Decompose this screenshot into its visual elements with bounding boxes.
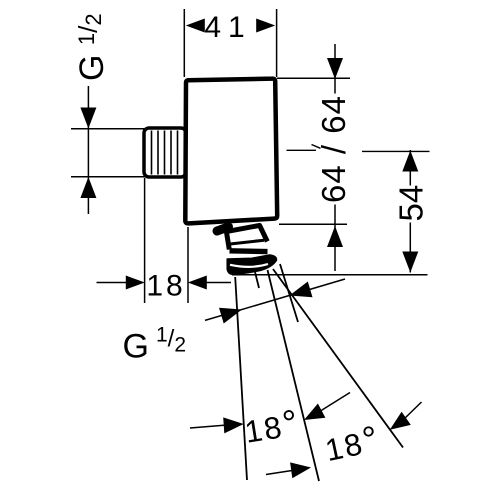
- arrow 64/64 bottom: [327, 226, 343, 247]
- arrow 41 right: [256, 19, 275, 33]
- angle arrow A tail: [190, 425, 227, 428]
- arrow 64/64 top: [327, 58, 343, 79]
- dimension line 64/64 upper segment: [334, 44, 336, 94]
- threaded inlet pipe: [144, 128, 186, 177]
- dimension line G1/2 vertical: [87, 86, 89, 214]
- extension line 41 right: [276, 9, 278, 77]
- label 18 deg first: [242, 402, 303, 451]
- arrow 41 left: [186, 19, 205, 33]
- nozzle collar band: [230, 248, 268, 254]
- escutcheon body plate: [185, 79, 277, 224]
- angle arrow B: [304, 404, 325, 421]
- spray line 3 outer: [273, 269, 403, 448]
- extension line body bottom right: [279, 223, 347, 225]
- label 18 deg second: [321, 417, 384, 469]
- extension tick G1/2 bottom: [71, 176, 145, 178]
- label G 1/2 rotated top left: [73, 13, 111, 81]
- extension line 41 left: [183, 9, 185, 77]
- dimension tail 18 right: [207, 282, 232, 284]
- arrow G1/2 up: [80, 177, 96, 198]
- arrow 54 up: [402, 151, 418, 172]
- spray line 1 vertical: [235, 277, 247, 480]
- dimension line 54 lower segment: [409, 223, 411, 273]
- extension line outlet bottom: [232, 274, 428, 276]
- leader arrow at spray edge: [290, 282, 313, 298]
- spray edge line short: [280, 264, 298, 322]
- svg-text:18: 18: [146, 270, 185, 303]
- centerline jog: [312, 145, 321, 149]
- extension line 18 right: [187, 227, 189, 303]
- centerline dash 2: [362, 150, 430, 152]
- svg-text:41: 41: [204, 11, 251, 44]
- spray line 2 middle: [268, 270, 320, 481]
- nozzle outlet ring: [227, 255, 276, 274]
- extension line body top right: [277, 77, 350, 79]
- angle arrow C: [290, 462, 311, 478]
- outlet nozzle tab: [217, 227, 229, 231]
- angle arrow D: [390, 412, 411, 430]
- leader arrow at spray line 1: [219, 308, 242, 324]
- arrow 18 left: [126, 276, 145, 290]
- arrow 54 down: [402, 252, 418, 273]
- svg-text:64 / 64: 64 / 64: [315, 95, 352, 203]
- extension tick G1/2 top: [71, 128, 145, 130]
- outlet nozzle neck: [226, 225, 267, 249]
- nozzle ring white stripe: [230, 264, 268, 267]
- dimension tail 18 left: [97, 282, 129, 284]
- centerline dash 1: [287, 149, 317, 151]
- arrow 18 right: [188, 276, 207, 290]
- angle arrow C tail: [266, 471, 292, 475]
- svg-text:54: 54: [393, 185, 430, 222]
- dimension line 64/64 lower segment: [334, 205, 336, 272]
- dimension line 54 upper segment: [409, 150, 411, 186]
- nozzle leg stub: [255, 272, 259, 288]
- angle arrow B tail: [318, 393, 350, 413]
- arrow G1/2 down: [80, 108, 96, 129]
- extension line 18 left: [144, 178, 146, 303]
- label 54 rotated: [393, 185, 430, 222]
- leader chord G1/2: [205, 279, 345, 320]
- nozzle neck groove: [230, 240, 264, 244]
- angle arrow D tail: [403, 402, 422, 420]
- angle arrow A: [223, 417, 244, 433]
- label 64/64 rotated: [315, 95, 352, 203]
